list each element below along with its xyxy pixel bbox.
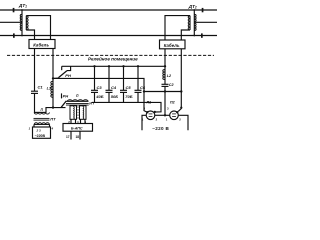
wire bus drop to P1 xyxy=(154,111,161,112)
node on right cable wire xyxy=(180,107,182,109)
svg-text:С2: С2 xyxy=(169,83,175,87)
relay room dashed boundary xyxy=(7,54,214,56)
terminal 18 xyxy=(79,131,81,139)
svg-text:1: 1 xyxy=(166,117,168,121)
upper bus xyxy=(62,65,165,67)
cable box left xyxy=(29,40,55,49)
terminal 17 xyxy=(70,131,72,139)
svg-text:РН: РН xyxy=(65,73,71,78)
transformer IT primary xyxy=(66,100,88,102)
node PT tap xyxy=(52,106,54,108)
wire P2 right to 220V xyxy=(178,115,188,130)
center-tap line right xyxy=(194,21,217,23)
wire DT2 secondary bottom to cable xyxy=(181,30,190,40)
transformer IT secondary winding 1 xyxy=(70,106,77,120)
center-tap line left xyxy=(0,21,22,23)
svg-text:~220В: ~220В xyxy=(35,134,46,138)
svg-text:~220 В: ~220 В xyxy=(152,126,169,131)
insulated joint bottom-right xyxy=(201,33,203,37)
wire series link P1-P2 xyxy=(155,114,170,116)
wire cable-left 1 down (C1 branch) xyxy=(34,49,36,92)
svg-text:П2: П2 xyxy=(170,100,175,104)
capacitor C4 xyxy=(106,66,113,102)
wire right cable 2 down xyxy=(178,49,181,112)
block B-APS xyxy=(63,124,93,132)
wire DT1 secondary bottom to cable xyxy=(26,30,34,40)
node linkA-tap xyxy=(143,90,145,92)
node bus-C4 xyxy=(108,65,110,67)
power box 220V xyxy=(33,127,51,138)
wire line A xyxy=(53,78,147,112)
contact RN1 xyxy=(53,66,71,78)
svg-text:Б-АПС: Б-АПС xyxy=(71,126,83,130)
capacitor C6 xyxy=(135,66,142,102)
svg-text:П1: П1 xyxy=(147,100,152,104)
svg-text:2: 2 xyxy=(179,117,181,121)
svg-text:40Б: 40Б xyxy=(95,94,103,99)
capacitor C5 xyxy=(120,66,127,102)
svg-text:С1: С1 xyxy=(38,85,44,90)
rail bottom xyxy=(0,35,217,37)
svg-text:18: 18 xyxy=(76,135,80,139)
svg-text:2 3: 2 3 xyxy=(36,128,42,132)
node link-right xyxy=(180,90,182,92)
node bus-right xyxy=(164,65,166,67)
core IT xyxy=(66,103,89,105)
node link center xyxy=(164,114,166,116)
svg-text:Кабель: Кабель xyxy=(33,43,49,48)
capacitor C3 xyxy=(91,66,98,102)
wire PT right lead xyxy=(46,108,66,113)
node P1 top-right xyxy=(154,111,156,113)
svg-text:1: 1 xyxy=(142,117,144,121)
svg-text:ИТ: ИТ xyxy=(89,100,95,105)
wire link to right xyxy=(144,91,181,93)
wire cable-left 2 down (L1 branch) xyxy=(52,49,54,108)
svg-text:П: П xyxy=(76,94,79,98)
svg-text:РН: РН xyxy=(63,93,69,98)
converter P1 xyxy=(146,111,155,120)
svg-text:С5: С5 xyxy=(126,85,132,90)
svg-text:17: 17 xyxy=(66,135,70,139)
node bus-C3 xyxy=(93,65,95,67)
svg-text:50Б: 50Б xyxy=(111,94,118,99)
core IT vertical (between windings) xyxy=(77,106,79,119)
transformer PT secondary xyxy=(34,123,50,127)
inductor L1 xyxy=(51,81,53,97)
transformer PT primary xyxy=(34,112,49,114)
rail top xyxy=(0,9,217,11)
node line-A tap xyxy=(52,77,54,79)
insulated joint bottom-left xyxy=(13,33,15,37)
node P2 top-right xyxy=(176,111,178,113)
capacitor bottom bus xyxy=(92,102,161,111)
wire right cable 1 down xyxy=(164,49,166,85)
svg-text:ДТ2: ДТ2 xyxy=(188,4,197,10)
wires IT secondary to B-APS xyxy=(70,119,72,123)
transformer DT1 xyxy=(20,9,28,36)
svg-text:3: 3 xyxy=(167,107,169,111)
capacitor C1 xyxy=(31,91,38,112)
svg-text:2: 2 xyxy=(156,117,158,121)
wire P1 left to 220V xyxy=(142,115,146,130)
svg-text:1: 1 xyxy=(29,126,31,130)
node link-L2 xyxy=(164,90,166,92)
insulated joint top-right xyxy=(202,8,204,12)
node P1 top-left xyxy=(146,111,148,113)
svg-text:С3: С3 xyxy=(97,85,103,90)
capacitor C2 xyxy=(162,84,169,115)
core PT xyxy=(34,118,50,120)
cable box right xyxy=(160,40,186,49)
transformer IT secondary winding 2 xyxy=(80,106,87,120)
insulated joint top-left xyxy=(13,8,15,12)
svg-text:С4: С4 xyxy=(111,85,117,90)
svg-text:ПТ: ПТ xyxy=(50,116,56,121)
svg-text:3: 3 xyxy=(144,107,146,111)
transformer DT2 xyxy=(188,9,196,36)
svg-text:Релейное помещение: Релейное помещение xyxy=(88,56,138,62)
svg-text:ДТ1: ДТ1 xyxy=(18,3,27,9)
svg-text:С6: С6 xyxy=(140,85,146,90)
inductor L2 xyxy=(163,70,165,80)
wire DT2 secondary top to cable xyxy=(165,16,190,40)
svg-text:П: П xyxy=(41,108,44,112)
svg-text:Кабель: Кабель xyxy=(164,43,180,48)
wire DT1 secondary top to cable xyxy=(26,16,50,40)
converter P2 xyxy=(170,111,179,120)
svg-text:L1: L1 xyxy=(47,87,51,91)
node bus-C6 xyxy=(137,65,139,67)
contact RN2 xyxy=(61,93,66,107)
svg-text:70Б: 70Б xyxy=(125,94,132,99)
node bus-C5 xyxy=(122,65,124,67)
svg-text:L2: L2 xyxy=(167,74,172,78)
